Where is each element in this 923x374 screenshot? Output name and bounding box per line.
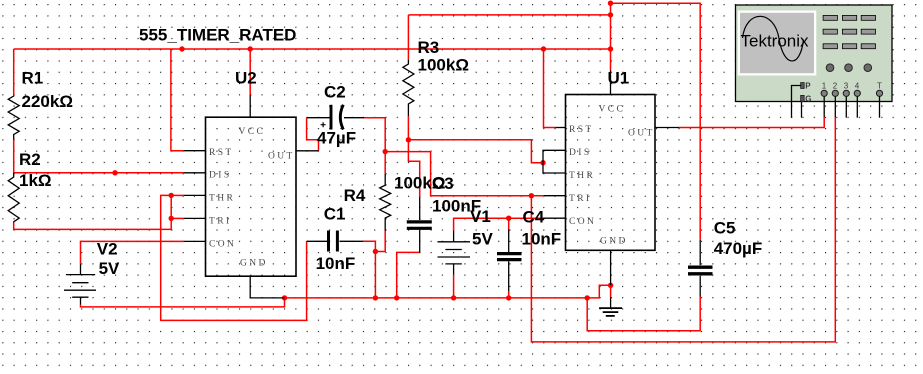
wire R3 top lead bbox=[407, 15, 409, 60]
svg-text:VCC: VCC bbox=[239, 127, 266, 137]
wire U2 VCC drop bbox=[249, 49, 251, 95]
oscilloscope G connector bbox=[801, 95, 805, 101]
svg-text:V1: V1 bbox=[470, 207, 491, 226]
svg-text:1: 1 bbox=[822, 81, 827, 90]
capacitor C1 leads bbox=[307, 240, 327, 242]
node U1 RST bbox=[541, 46, 546, 51]
wire U1 VCC drop bbox=[610, 3, 612, 70]
svg-text:47µF: 47µF bbox=[317, 129, 356, 148]
svg-text:C4: C4 bbox=[523, 208, 545, 227]
resistor R1 bbox=[8, 96, 19, 140]
oscilloscope sine wave bbox=[743, 16, 804, 61]
capacitor C5 plates bbox=[688, 266, 713, 269]
wire V2 minus to ground node bbox=[81, 298, 285, 307]
wire TRI U2 stub red bbox=[171, 217, 184, 219]
svg-text:470µF: 470µF bbox=[714, 239, 763, 258]
U2 pin DIS stub bbox=[184, 172, 206, 174]
U1 pin THR stub bbox=[543, 163, 566, 173]
U1 pin OUT stub bbox=[655, 127, 679, 129]
wire R3 top bbox=[408, 14, 610, 16]
node U1 GND bbox=[608, 283, 613, 288]
svg-text:CON: CON bbox=[569, 217, 596, 227]
node rail end bbox=[608, 46, 613, 51]
svg-text:R4: R4 bbox=[344, 186, 366, 205]
U1 pin CON stub bbox=[543, 217, 566, 219]
U2 pin OUT stub bbox=[296, 150, 319, 152]
svg-text:OUT: OUT bbox=[268, 152, 295, 162]
oscilloscope terminals bbox=[821, 90, 883, 96]
wire C1 to THR branch bbox=[161, 195, 307, 320]
node C3 gnd bbox=[394, 295, 399, 300]
oscilloscope P connector bbox=[801, 83, 805, 89]
oscilloscope XSC body bbox=[736, 5, 893, 102]
wire C4 bottom bbox=[508, 291, 510, 298]
svg-text:5V: 5V bbox=[472, 229, 493, 248]
capacitor C1 plates bbox=[327, 231, 330, 252]
wire R4 top node to U1 TRI bbox=[385, 152, 544, 196]
svg-text:GND: GND bbox=[600, 237, 628, 247]
wire C2 right to R4 top node bbox=[364, 118, 385, 152]
svg-text:10nF: 10nF bbox=[522, 229, 562, 248]
wire C3 bottom bbox=[397, 252, 420, 298]
capacitor C5 leads bbox=[699, 240, 701, 265]
node THR U2 bbox=[169, 193, 174, 198]
svg-text:V2: V2 bbox=[97, 240, 118, 259]
capacitor C2 flat plate bbox=[330, 105, 333, 130]
node rail dot A bbox=[179, 46, 184, 51]
wire C2 left to U2 OUT bbox=[307, 118, 319, 151]
capacitor C2 leads bbox=[307, 117, 331, 119]
svg-text:555_TIMER_RATED: 555_TIMER_RATED bbox=[139, 26, 296, 45]
svg-text:THR: THR bbox=[209, 194, 235, 204]
wire R3 bottom to U1 DIS/THR bbox=[408, 116, 543, 162]
node TRI U2 bbox=[169, 216, 174, 221]
svg-text:100kΩ: 100kΩ bbox=[418, 56, 469, 75]
wire V2 plus to CON U2 bbox=[81, 241, 185, 264]
svg-text:C5: C5 bbox=[714, 219, 736, 238]
battery V2 bbox=[80, 264, 82, 275]
op-amp U1 box (555 timer) bbox=[566, 95, 656, 251]
resistor R4 bbox=[380, 174, 391, 231]
U1 pin RST stub bbox=[555, 127, 565, 129]
svg-text:1kΩ: 1kΩ bbox=[19, 171, 52, 190]
U1 pin TRI stub bbox=[544, 195, 566, 197]
svg-text:TRI: TRI bbox=[569, 194, 592, 204]
resistor R2 bbox=[8, 173, 19, 223]
U2 pin RST stub bbox=[184, 150, 206, 152]
svg-text:TRI: TRI bbox=[209, 217, 232, 227]
battery V1 bbox=[453, 231, 455, 242]
svg-text:Tektronix: Tektronix bbox=[741, 32, 810, 51]
node C4 gnd bbox=[506, 295, 511, 300]
capacitor C4 leads bbox=[508, 230, 510, 253]
node U1 TRI bbox=[529, 193, 534, 198]
svg-text:U1: U1 bbox=[608, 69, 630, 88]
node V2 gnd bbox=[282, 295, 287, 300]
capacitor C2 curved plate bbox=[340, 105, 343, 130]
capacitor C3 plates bbox=[407, 220, 432, 223]
wire V1 minus bbox=[453, 275, 455, 298]
U2 pin VCC stub bbox=[249, 95, 251, 117]
svg-text:RST: RST bbox=[209, 148, 234, 158]
node U1 DIS THR bbox=[540, 160, 545, 165]
wire ground rail bbox=[285, 285, 611, 298]
oscilloscope buttons 3x3 bbox=[823, 15, 875, 48]
svg-text:CON: CON bbox=[209, 240, 236, 250]
wire R2 bottom elbow bbox=[14, 195, 172, 229]
svg-text:220kΩ: 220kΩ bbox=[22, 92, 73, 111]
wire VCC rail 555_TIMER_RATED bbox=[14, 48, 611, 50]
wire RST U2 branch bbox=[171, 49, 184, 151]
oscilloscope stub wires bbox=[792, 86, 880, 118]
wire U1 RST branch bbox=[544, 49, 556, 128]
U2 pin GND stub bbox=[250, 276, 284, 298]
oscilloscope knobs bbox=[826, 64, 871, 72]
wire C3 top branch bbox=[408, 140, 419, 197]
node C5 gnd bbox=[585, 295, 590, 300]
svg-text:R2: R2 bbox=[19, 150, 41, 169]
node DIS wire bbox=[112, 170, 117, 175]
node R4 top bbox=[383, 149, 388, 154]
node C4 top bbox=[506, 216, 511, 221]
wire DIS U2 bbox=[14, 172, 184, 174]
svg-text:C1: C1 bbox=[324, 205, 346, 224]
wire THR U2 stub red bbox=[171, 194, 184, 196]
svg-text:T: T bbox=[877, 81, 882, 90]
wire R1 bottom to R2/DIS node bbox=[13, 140, 15, 173]
svg-text:5V: 5V bbox=[99, 259, 120, 278]
wire R4 bottom bbox=[375, 231, 385, 252]
oscilloscope screen bbox=[740, 13, 814, 73]
svg-text:3: 3 bbox=[844, 81, 849, 90]
node V1 gnd bbox=[451, 295, 456, 300]
node top right corner bbox=[608, 1, 613, 6]
svg-text:U2: U2 bbox=[235, 69, 257, 88]
oscilloscope screen frame bbox=[738, 11, 817, 76]
U2 pin THR stub bbox=[184, 194, 206, 196]
svg-text:2: 2 bbox=[833, 81, 838, 90]
svg-text:G: G bbox=[805, 94, 811, 103]
wire C1 right lead bbox=[363, 241, 375, 298]
node C1 gnd bbox=[373, 295, 378, 300]
U1 pin VCC stub bbox=[610, 70, 612, 94]
ground bbox=[610, 285, 612, 297]
svg-text:DIS: DIS bbox=[209, 171, 232, 181]
wire U1 TRI to oscilloscope ch2 bbox=[531, 118, 835, 342]
svg-text:GND: GND bbox=[240, 259, 268, 269]
svg-text:4: 4 bbox=[855, 81, 860, 90]
wire C5 ground branch bbox=[587, 297, 700, 331]
svg-text:10nF: 10nF bbox=[316, 254, 356, 273]
resistor R3 bbox=[403, 60, 414, 116]
U1 pin GND stub bbox=[610, 250, 612, 285]
node U2 VCC bbox=[248, 46, 253, 51]
svg-text:R3: R3 bbox=[418, 38, 440, 57]
wire C4 top bbox=[508, 218, 510, 229]
op-amp U2 box (555 timer) bbox=[206, 117, 297, 276]
svg-text:C3: C3 bbox=[432, 174, 454, 193]
U1 pin DIS stub bbox=[543, 150, 566, 162]
wire top to C5 bbox=[611, 3, 701, 240]
wire R1 top lead bbox=[13, 49, 15, 96]
svg-text:RST: RST bbox=[569, 125, 594, 135]
wire U1 OUT to oscilloscope ch1 bbox=[679, 118, 824, 128]
svg-text:VCC: VCC bbox=[599, 105, 626, 115]
svg-text:THR: THR bbox=[569, 171, 595, 181]
U2 pin TRI stub bbox=[184, 217, 206, 219]
U2 pin CON stub bbox=[184, 240, 206, 242]
wire V1 plus to CON U1 bbox=[454, 218, 543, 231]
node R3 bottom bbox=[406, 137, 411, 142]
capacitor C4 plates bbox=[497, 252, 522, 255]
svg-text:C2: C2 bbox=[324, 83, 346, 102]
node R4 C1 bbox=[373, 249, 378, 254]
node R3 wire bbox=[608, 12, 613, 17]
wire R4 top lead bbox=[384, 152, 386, 174]
svg-text:OUT: OUT bbox=[628, 129, 655, 139]
svg-text:P: P bbox=[805, 81, 811, 90]
svg-text:DIS: DIS bbox=[569, 148, 592, 158]
svg-text:R1: R1 bbox=[22, 69, 44, 88]
capacitor C2 plus sign bbox=[321, 122, 326, 127]
capacitor C3 leads bbox=[419, 197, 421, 220]
